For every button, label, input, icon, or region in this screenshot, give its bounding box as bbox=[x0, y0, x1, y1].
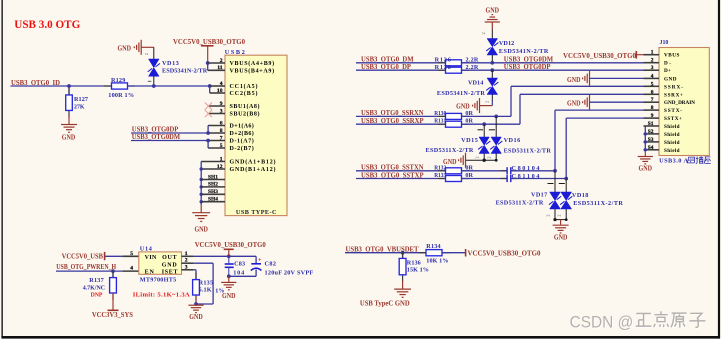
J10 pin 2 D- bbox=[644, 62, 660, 64]
svg-text:USB_OTG_PWREN_H: USB_OTG_PWREN_H bbox=[56, 262, 116, 271]
wire USB_OTG_PWREN_H to EN bbox=[56, 270, 122, 272]
svg-text:D+1(A6): D+1(A6) bbox=[230, 123, 254, 130]
ground USB TypeC GND bbox=[394, 289, 411, 297]
svg-text:R126: R126 bbox=[435, 56, 451, 63]
ground GND (VD17/VD18) bbox=[560, 220, 562, 225]
svg-text:VBUS: VBUS bbox=[664, 53, 680, 59]
svg-text:GND: GND bbox=[567, 76, 581, 84]
svg-text:R132: R132 bbox=[434, 164, 446, 171]
svg-text:3: 3 bbox=[651, 65, 654, 71]
svg-text:2: 2 bbox=[485, 101, 490, 103]
pin 1 GND(A1+B12) bbox=[201, 161, 225, 163]
pin 5 D-2(B7) bbox=[208, 147, 225, 149]
resistor R127 27K bbox=[68, 86, 70, 95]
svg-text:5: 5 bbox=[130, 251, 133, 257]
svg-text:SH4: SH4 bbox=[208, 197, 218, 203]
svg-text:VCC5V0_USB30_OTG0: VCC5V0_USB30_OTG0 bbox=[563, 53, 637, 60]
svg-text:1: 1 bbox=[185, 251, 188, 257]
no-connect X on SBU1 pin 9 bbox=[205, 103, 212, 110]
svg-text:GND: GND bbox=[486, 6, 500, 14]
svg-text:5.1K: 5.1K bbox=[199, 286, 212, 293]
pin 11 VBUS(B4+A9) bbox=[208, 69, 225, 71]
svg-text:SH3: SH3 bbox=[208, 189, 218, 195]
svg-text:USB 3.0 OTG: USB 3.0 OTG bbox=[14, 17, 80, 31]
svg-text:S4: S4 bbox=[648, 145, 654, 151]
svg-text:USB TYPE-C: USB TYPE-C bbox=[236, 209, 277, 216]
resistor R126 2.2R bbox=[438, 62, 446, 64]
wire VD15/VD16 ground rail bbox=[466, 159, 497, 161]
diode VD16 ESD5311X-2/TR bbox=[495, 116, 497, 137]
svg-text:5: 5 bbox=[651, 81, 654, 87]
J10 pin 6 SSRX+ bbox=[644, 93, 660, 95]
svg-text:MT9700HT5: MT9700HT5 bbox=[140, 276, 176, 283]
svg-text:VBUS(B4+A9): VBUS(B4+A9) bbox=[230, 68, 275, 75]
svg-text:D-2(B7): D-2(B7) bbox=[230, 145, 254, 152]
pin 12 GND(B1+A12) bbox=[201, 168, 225, 170]
svg-text:ESD5311X-2/TR: ESD5311X-2/TR bbox=[496, 199, 544, 206]
wire VBUS pins bbox=[206, 61, 210, 65]
svg-text:2: 2 bbox=[546, 214, 551, 216]
wire SSRXN to J10 pin5 SSRX- bbox=[462, 115, 512, 117]
svg-text:S3: S3 bbox=[648, 137, 654, 143]
svg-text:USB3.0 A: USB3.0 A bbox=[659, 158, 688, 165]
wire CC2 drop bbox=[209, 86, 211, 93]
svg-text:R137: R137 bbox=[89, 277, 103, 284]
svg-text:R129: R129 bbox=[111, 77, 125, 84]
svg-text:ESD5311X-2/TR: ESD5311X-2/TR bbox=[573, 200, 623, 207]
wire R134 to VCC bbox=[442, 252, 465, 254]
svg-text:SH1: SH1 bbox=[208, 174, 218, 180]
wire USB3_OTG0_ID bbox=[11, 85, 112, 87]
svg-text:Shield: Shield bbox=[664, 140, 680, 146]
svg-text:VD16: VD16 bbox=[504, 137, 521, 144]
pin 1 OUT bbox=[182, 255, 194, 257]
svg-text:8: 8 bbox=[220, 128, 223, 134]
svg-text:GND: GND bbox=[567, 100, 581, 108]
svg-text:GND(B1+A12): GND(B1+A12) bbox=[230, 166, 276, 173]
no-connect X on SBU2 pin 3 bbox=[205, 110, 212, 117]
svg-text:EN: EN bbox=[145, 269, 155, 275]
svg-text:VD12: VD12 bbox=[499, 40, 514, 47]
svg-text:104: 104 bbox=[233, 269, 244, 276]
wire VD14 top stem bbox=[491, 70, 493, 78]
diode VD14 ESD5341N-2/TR bbox=[487, 78, 498, 95]
svg-text:SSRX+: SSRX+ bbox=[664, 92, 683, 98]
svg-text:4: 4 bbox=[130, 266, 133, 272]
svg-text:8: 8 bbox=[651, 105, 654, 111]
svg-text:10: 10 bbox=[217, 88, 223, 94]
resistor R130 0R bbox=[438, 115, 446, 117]
diode VD15 ESD5311X-2/TR bbox=[483, 124, 485, 137]
wire J10 shield bus bbox=[644, 126, 646, 151]
ground GND (J10 shield) bbox=[638, 157, 653, 164]
pin 2 VBUS(A4+B9) bbox=[208, 62, 225, 64]
svg-text:1: 1 bbox=[220, 156, 223, 162]
wire GND pin to ground rail bbox=[193, 262, 213, 264]
svg-text:GND: GND bbox=[118, 45, 132, 53]
pin 10 CC2(B5) bbox=[210, 92, 225, 94]
svg-text:ISET: ISET bbox=[162, 269, 178, 275]
wire USB3_OTG0DP to D+ pins bbox=[131, 132, 208, 134]
wire VD13 bottom stem bbox=[153, 76, 155, 86]
pin 8 D+2(B6) bbox=[208, 132, 225, 134]
svg-text:15K 1%: 15K 1% bbox=[407, 267, 429, 274]
wire R133 to C81 bbox=[462, 178, 507, 180]
svg-text:ESD5311X-2/TR: ESD5311X-2/TR bbox=[426, 147, 474, 154]
diode VD18 ESD5311X-2/TR bbox=[565, 179, 567, 193]
svg-text:27K: 27K bbox=[74, 103, 85, 110]
capacitor C82 120uF 20V SVPF (polarized) bbox=[255, 256, 257, 263]
pin SH2 bbox=[201, 186, 225, 188]
wire VD17/VD18 ground rail bbox=[555, 219, 566, 221]
J10 pin 1 VBUS bbox=[644, 54, 660, 56]
svg-text:1: 1 bbox=[651, 50, 654, 56]
svg-text:CC2(B5): CC2(B5) bbox=[230, 90, 258, 97]
resistor R134 10K 1% bbox=[419, 252, 427, 254]
svg-text:120uF 20V SVPF: 120uF 20V SVPF bbox=[265, 270, 314, 277]
resistor R131 0R bbox=[438, 123, 446, 125]
svg-text:C83: C83 bbox=[234, 261, 245, 268]
svg-text:C82: C82 bbox=[265, 261, 277, 268]
capacitor C81 104 bbox=[501, 178, 508, 180]
svg-text:S1: S1 bbox=[648, 121, 654, 127]
svg-text:7: 7 bbox=[651, 97, 654, 103]
wire C80 to J10 pin8 SSTX- bbox=[511, 170, 555, 172]
J10 pin 4 GND bbox=[644, 77, 660, 79]
svg-text:VD15: VD15 bbox=[461, 137, 478, 144]
svg-text:USB TypeC GND: USB TypeC GND bbox=[360, 300, 410, 308]
svg-text:VD17: VD17 bbox=[531, 192, 547, 199]
svg-text:VCC5V0_USB30_OTG0: VCC5V0_USB30_OTG0 bbox=[173, 39, 246, 46]
svg-text:2: 2 bbox=[185, 258, 188, 264]
svg-text:USB3_OTG0_VBUSDET: USB3_OTG0_VBUSDET bbox=[346, 244, 419, 253]
svg-text:ESD5311X-2/TR: ESD5311X-2/TR bbox=[504, 147, 552, 154]
wire USB3_OTG0_SSRXN bbox=[356, 115, 446, 117]
resistor R132 0R bbox=[438, 170, 446, 172]
svg-text:OUT: OUT bbox=[162, 255, 177, 261]
wire VD12 bottom stem bbox=[491, 55, 493, 63]
pin 2 GND bbox=[182, 262, 194, 264]
svg-text:12: 12 bbox=[217, 164, 223, 170]
svg-text:CC1(A5): CC1(A5) bbox=[230, 83, 258, 90]
svg-text:VD13: VD13 bbox=[162, 60, 179, 67]
svg-text:CSDN @: CSDN @ bbox=[570, 313, 634, 331]
pin SH1 bbox=[201, 179, 225, 181]
capacitor C83 104 bbox=[228, 256, 230, 263]
svg-text:2: 2 bbox=[475, 156, 480, 158]
svg-text:S2: S2 bbox=[648, 129, 654, 135]
wire USB3_OTG0DM to D- pins bbox=[131, 140, 208, 142]
svg-text:GND(A1+B12): GND(A1+B12) bbox=[230, 159, 276, 166]
pin 5 VIN bbox=[122, 255, 139, 257]
svg-text:VCC5V0_USB30_OTG0: VCC5V0_USB30_OTG0 bbox=[468, 251, 542, 258]
svg-text:6: 6 bbox=[220, 120, 223, 126]
wire R132 to C80 bbox=[462, 170, 507, 172]
J10 pin S2 Shield bbox=[644, 133, 660, 135]
wire C81 to J10 pin9 SSTX+ bbox=[511, 178, 566, 180]
J10 pin S3 Shield bbox=[644, 141, 660, 143]
wire USB3_OTG0_DM bbox=[356, 62, 446, 64]
pin SH4 bbox=[201, 201, 225, 203]
svg-text:SSRX-: SSRX- bbox=[664, 84, 683, 90]
wire DP to J10 pin3 bbox=[462, 69, 644, 71]
svg-text:GND: GND bbox=[162, 262, 178, 268]
svg-text:Shield: Shield bbox=[664, 132, 680, 138]
svg-text:100R 1%: 100R 1% bbox=[108, 92, 134, 99]
diode VD17 ESD5311X-2/TR bbox=[554, 171, 556, 192]
wire USB3_OTG0_VBUSDET bbox=[345, 252, 426, 254]
wire USB3_OTG0_SSTXN bbox=[356, 170, 446, 172]
svg-text:4.7K/NC: 4.7K/NC bbox=[83, 285, 105, 292]
svg-text:3: 3 bbox=[185, 264, 188, 270]
diode VD12 ESD5341N-2/TR bbox=[487, 39, 498, 56]
ground GND (C83/C82) bbox=[228, 276, 230, 282]
svg-text:+: + bbox=[258, 257, 262, 264]
J10 pin 3 D+ bbox=[644, 69, 660, 71]
svg-text:DNP: DNP bbox=[91, 292, 103, 299]
svg-text:2: 2 bbox=[144, 53, 149, 55]
svg-text:GND: GND bbox=[62, 134, 76, 142]
svg-text:2: 2 bbox=[487, 156, 492, 158]
wire OUT to VCC5V0_USB30_OTG0 and caps bbox=[193, 255, 256, 257]
resistor R128 2.2R bbox=[438, 69, 446, 71]
svg-text:4: 4 bbox=[651, 73, 654, 79]
wire R129 to CC pins bbox=[128, 85, 210, 87]
ground GND (R135) bbox=[188, 305, 203, 312]
sheet border right bbox=[718, 0, 720, 339]
pin 3 ISET bbox=[182, 269, 194, 271]
svg-text:USB3_OTG0_SSRXP: USB3_OTG0_SSRXP bbox=[361, 116, 424, 125]
svg-text:2: 2 bbox=[481, 32, 486, 34]
pin 9 SBU1(A8) bbox=[208, 105, 225, 107]
svg-text:D-1(A7): D-1(A7) bbox=[230, 138, 254, 145]
J10 pin 8 SSTX- bbox=[644, 109, 660, 111]
svg-text:VD14: VD14 bbox=[468, 79, 483, 86]
svg-text:VBUS(A4+B9): VBUS(A4+B9) bbox=[230, 60, 275, 67]
pin 4 EN bbox=[122, 270, 139, 272]
svg-text:R133: R133 bbox=[434, 172, 446, 179]
J10 pin 5 SSRX- bbox=[644, 85, 660, 87]
svg-text:SBU2(B8): SBU2(B8) bbox=[230, 111, 260, 118]
resistor R129 100R 1% bbox=[104, 85, 112, 87]
wire VD14 bottom stem bbox=[491, 95, 493, 102]
pin 6 D+1(A6) bbox=[208, 125, 225, 127]
svg-text:2: 2 bbox=[651, 58, 654, 64]
J10 pin 9 SSTX+ bbox=[644, 117, 660, 119]
wire SSRXP to J10 pin6 SSRX+ bbox=[462, 123, 521, 125]
svg-text:R134: R134 bbox=[426, 243, 440, 250]
svg-text:9: 9 bbox=[651, 113, 654, 119]
resistor R136 15K 1% bbox=[402, 253, 404, 259]
wire USB3_OTG0_DP bbox=[356, 69, 446, 71]
node junction CC2 branch bbox=[208, 84, 212, 88]
power port VCC5V0_USB30_OTG0 (VBUSDET) bbox=[465, 249, 467, 257]
svg-text:D-: D- bbox=[664, 61, 671, 67]
svg-text:SBU1(A8): SBU1(A8) bbox=[230, 103, 260, 110]
svg-text:D+2(B6): D+2(B6) bbox=[230, 130, 254, 137]
svg-text:5: 5 bbox=[220, 143, 223, 149]
svg-text:4: 4 bbox=[220, 81, 223, 87]
pin 4 CC1(A5) bbox=[210, 85, 225, 87]
svg-text:J10: J10 bbox=[660, 39, 669, 46]
svg-text:R128: R128 bbox=[435, 64, 451, 71]
svg-text:D+: D+ bbox=[664, 68, 671, 74]
svg-text:2: 2 bbox=[220, 58, 223, 64]
svg-text:SSTX+: SSTX+ bbox=[664, 116, 682, 122]
svg-text:GND: GND bbox=[554, 234, 568, 242]
node junction R127 bbox=[67, 84, 71, 88]
svg-text:R135: R135 bbox=[199, 279, 214, 286]
svg-text:VCC5V0_USB30_OTG0: VCC5V0_USB30_OTG0 bbox=[195, 242, 267, 249]
capacitor C80 104 bbox=[501, 170, 508, 172]
pin SH3 bbox=[201, 193, 225, 195]
resistor R133 0R bbox=[438, 178, 446, 180]
J10 pin 7 GND_DRAIN bbox=[644, 101, 660, 103]
svg-text:6: 6 bbox=[651, 89, 654, 95]
resistor R135 5.1K 1% bbox=[193, 269, 196, 271]
svg-text:9: 9 bbox=[220, 101, 223, 107]
wire DM to J10 pin2 bbox=[462, 62, 644, 64]
svg-text:USB3_OTG0DP: USB3_OTG0DP bbox=[504, 62, 551, 71]
node junction VD13 bbox=[152, 84, 156, 88]
svg-text:SSTX-: SSTX- bbox=[664, 108, 682, 114]
svg-text:R127: R127 bbox=[74, 96, 88, 103]
svg-text:VIN: VIN bbox=[145, 255, 157, 261]
svg-text:GND: GND bbox=[222, 292, 236, 300]
diode VD13 ESD5341N-2/TR bbox=[149, 59, 160, 76]
wire USB3_OTG0_SSRXP bbox=[356, 123, 446, 125]
svg-text:7: 7 bbox=[220, 135, 223, 141]
pin 7 D-1(A7) bbox=[208, 140, 225, 142]
svg-text:ESD5341N-2/TR: ESD5341N-2/TR bbox=[162, 67, 208, 74]
pin 3 SBU2(B8) bbox=[208, 113, 225, 115]
svg-text:10K 1%: 10K 1% bbox=[426, 258, 448, 265]
ground GND (R127) bbox=[61, 125, 77, 133]
svg-text:3: 3 bbox=[220, 108, 223, 114]
svg-text:ILimit: 5.1K~1.3A: ILimit: 5.1K~1.3A bbox=[133, 291, 190, 298]
svg-text:USB3_OTG0DM: USB3_OTG0DM bbox=[132, 132, 180, 141]
svg-text:GND: GND bbox=[194, 225, 208, 233]
svg-text:11: 11 bbox=[217, 65, 222, 71]
svg-text:GND: GND bbox=[664, 76, 677, 82]
svg-text:VD18: VD18 bbox=[572, 192, 589, 199]
J10 pin S1 Shield bbox=[644, 125, 660, 127]
svg-text:VCC3V3_SYS: VCC3V3_SYS bbox=[92, 312, 133, 319]
power port VCC3V3_SYS bbox=[112, 293, 114, 310]
svg-text:GND: GND bbox=[639, 165, 653, 173]
wire VD13 top stem bbox=[153, 47, 155, 59]
wire GND bus of USB2 pins 1/12/shields bbox=[200, 162, 202, 205]
ground GND (USB2 shell) bbox=[192, 213, 210, 222]
svg-text:R136: R136 bbox=[407, 259, 421, 266]
svg-text:2: 2 bbox=[557, 214, 562, 216]
wire USB3_OTG0_SSTXP bbox=[356, 178, 446, 180]
resistor R137 4.7K/NC DNP bbox=[112, 271, 114, 278]
svg-text:GND: GND bbox=[189, 313, 203, 321]
svg-text:Shield: Shield bbox=[664, 124, 680, 130]
svg-text:R131: R131 bbox=[434, 118, 446, 125]
svg-text:U14: U14 bbox=[140, 245, 152, 252]
svg-text:R130: R130 bbox=[434, 110, 446, 117]
svg-text:GND_DRAIN: GND_DRAIN bbox=[664, 100, 695, 106]
J10 pin S4 Shield bbox=[644, 149, 660, 151]
svg-text:VCC5V0_USB: VCC5V0_USB bbox=[62, 254, 104, 261]
svg-text:Shield: Shield bbox=[664, 148, 680, 154]
sheet border bottom bbox=[1, 336, 719, 339]
sheet border left bbox=[1, 0, 3, 337]
svg-text:ESD5341N-2/TR: ESD5341N-2/TR bbox=[437, 90, 486, 97]
svg-text:SH2: SH2 bbox=[208, 182, 218, 188]
